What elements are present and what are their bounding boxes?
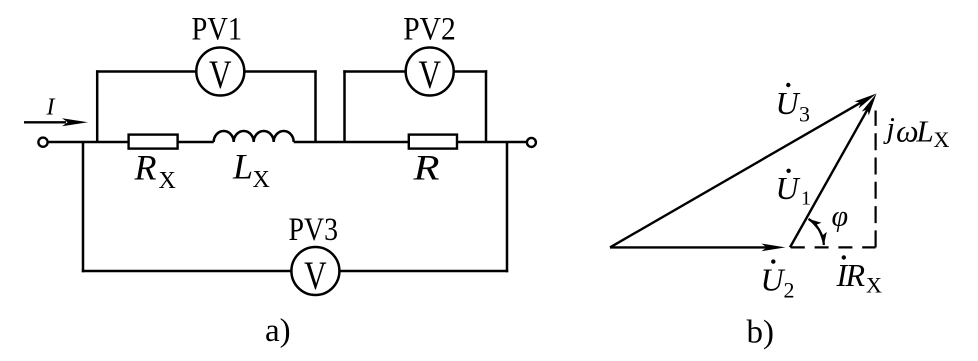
- svg-text:X: X: [934, 127, 950, 152]
- resistor R: [409, 135, 457, 149]
- wire RX to LX: [178, 141, 214, 144]
- resistor RX: [129, 135, 178, 149]
- wire LX to R: [294, 141, 409, 144]
- svg-text:X: X: [866, 273, 882, 298]
- vector U3: [610, 102, 863, 248]
- svg-text:L: L: [232, 147, 253, 187]
- label U3 (with dot): [776, 83, 811, 127]
- svg-text:a): a): [265, 313, 291, 349]
- wire PV2 left vertical: [343, 70, 346, 142]
- svg-text:R: R: [134, 148, 157, 188]
- wire PV1 right vertical: [314, 70, 317, 142]
- label IRX (with dot): [836, 255, 883, 297]
- svg-text:V: V: [418, 52, 441, 97]
- svg-text:V: V: [304, 253, 327, 298]
- svg-text:PV3: PV3: [289, 212, 339, 248]
- svg-text:ω: ω: [896, 113, 919, 149]
- wire PV3 left vertical: [82, 142, 85, 272]
- svg-text:U: U: [761, 262, 786, 298]
- label LX: [232, 147, 270, 193]
- svg-text:PV1: PV1: [192, 11, 243, 47]
- wire PV3 right vertical: [506, 142, 509, 272]
- wire input to RX: [48, 141, 129, 144]
- inductor LX: [214, 131, 294, 142]
- wire PV2 top-right horizontal: [454, 70, 488, 73]
- voltmeter PV3: [291, 247, 339, 298]
- label U1 (with dot): [776, 169, 812, 210]
- voltmeter PV1: [196, 48, 244, 98]
- svg-text:2: 2: [784, 278, 795, 303]
- angle arc phi: [809, 219, 824, 245]
- label U2 (with dot): [761, 259, 795, 302]
- current arrow I: [24, 121, 66, 123]
- wire R to output: [457, 141, 527, 144]
- voltmeter PV2: [406, 48, 454, 98]
- svg-text:X: X: [159, 168, 176, 194]
- wire PV3 bottom-left horizontal: [82, 270, 292, 273]
- wire PV1 left vertical: [96, 70, 99, 142]
- input terminal (left node): [38, 138, 47, 147]
- svg-text:L: L: [916, 114, 934, 149]
- svg-text:V: V: [209, 52, 232, 97]
- svg-text:R: R: [845, 257, 866, 293]
- vector U1: [790, 108, 869, 248]
- label RX: [134, 148, 176, 194]
- svg-text:b): b): [747, 315, 775, 351]
- wire PV2 top-left horizontal: [343, 70, 405, 73]
- svg-text:X: X: [253, 167, 270, 193]
- svg-text:U: U: [776, 85, 801, 121]
- svg-text:I: I: [46, 95, 56, 121]
- label jwLX: [883, 112, 950, 153]
- svg-text:1: 1: [801, 188, 811, 210]
- dashed horizontal IRX projection: [791, 246, 876, 248]
- svg-text:R: R: [412, 147, 439, 187]
- wire PV1 top-left horizontal: [96, 70, 196, 73]
- dashed vertical jwLX projection: [874, 111, 876, 248]
- wire PV1 top-right horizontal: [244, 70, 316, 73]
- svg-text:φ: φ: [832, 200, 849, 233]
- wire PV2 right vertical: [485, 70, 488, 142]
- svg-text:PV2: PV2: [403, 12, 456, 48]
- vector U2 (horizontal): [610, 246, 770, 248]
- output terminal (right node): [527, 138, 536, 147]
- wire PV3 bottom-right horizontal: [339, 270, 508, 273]
- svg-text:3: 3: [799, 102, 810, 127]
- svg-text:U: U: [776, 170, 801, 206]
